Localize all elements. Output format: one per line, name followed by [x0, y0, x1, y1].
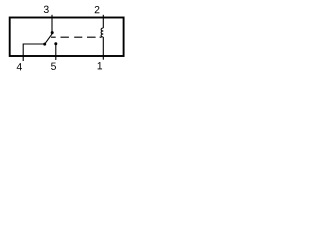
pin 4 lead wire	[23, 44, 45, 61]
switch armature lever	[44, 33, 52, 44]
pin 1 lead wire (bottom of coil)	[102, 37, 104, 60]
background	[0, 0, 134, 77]
relay outline box	[10, 18, 124, 57]
armature pivot dot (common, pin 4)	[43, 43, 46, 46]
NC contact dot (pin 3)	[51, 31, 54, 34]
pin 3 label	[44, 6, 49, 13]
pin 1 label	[98, 62, 102, 69]
coil L1	[101, 28, 103, 37]
pin 4 label	[17, 63, 22, 70]
pin 2 lead wire (top of coil)	[102, 15, 104, 28]
pin 2 label	[95, 6, 100, 13]
mechanical linkage dashed line	[51, 36, 102, 38]
pin 5 lead wire	[55, 44, 57, 60]
pin 5 label	[51, 63, 56, 70]
pin 3 lead wire	[51, 15, 53, 33]
NO contact dot (pin 5)	[54, 42, 57, 45]
